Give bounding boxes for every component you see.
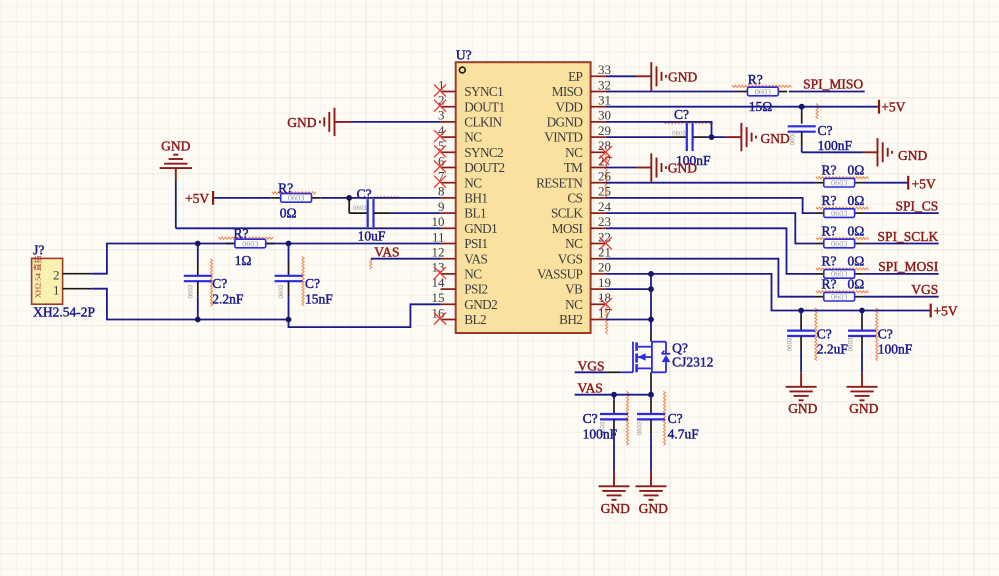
svg-text:NC: NC (464, 267, 482, 282)
svg-text:CLKIN: CLKIN (464, 115, 502, 130)
svg-text:R?: R? (822, 277, 837, 292)
svg-text:VGS: VGS (578, 358, 605, 373)
svg-text:SPI_MISO: SPI_MISO (803, 76, 863, 91)
svg-text:0Ω: 0Ω (848, 254, 865, 269)
svg-text:26: 26 (598, 169, 612, 184)
svg-text:9: 9 (438, 199, 445, 214)
svg-text:VB: VB (565, 282, 583, 297)
svg-text:15: 15 (432, 290, 445, 305)
svg-text:GND: GND (898, 148, 927, 163)
svg-text:DOUT2: DOUT2 (464, 160, 504, 175)
svg-text:XH2.54-2P: XH2.54-2P (33, 304, 95, 319)
svg-text:SPI_SCLK: SPI_SCLK (878, 229, 939, 244)
svg-text:C?: C? (357, 187, 372, 202)
svg-text:GND: GND (287, 115, 316, 130)
svg-text:SCLK: SCLK (551, 206, 583, 221)
svg-text:NC: NC (565, 145, 583, 160)
svg-text:2: 2 (53, 267, 60, 282)
svg-text:1Ω: 1Ω (235, 253, 252, 268)
svg-text:R?: R? (234, 226, 249, 241)
svg-text:GND: GND (761, 131, 790, 146)
svg-text:R?: R? (822, 193, 837, 208)
svg-text:PSI1: PSI1 (464, 236, 487, 251)
svg-text:C?: C? (818, 123, 833, 138)
svg-text:32: 32 (598, 77, 611, 92)
svg-text:0603: 0603 (831, 179, 847, 188)
svg-text:VAS: VAS (578, 380, 603, 395)
svg-text:2.2nF: 2.2nF (212, 291, 244, 306)
svg-text:0603: 0603 (831, 293, 847, 302)
svg-text:SPI_CS: SPI_CS (896, 198, 939, 213)
svg-text:31: 31 (598, 93, 611, 108)
svg-text:R?: R? (822, 254, 837, 269)
svg-text:VAS: VAS (464, 251, 487, 266)
svg-text:0603: 0603 (636, 421, 643, 435)
svg-text:GND: GND (788, 401, 817, 416)
svg-text:GND: GND (668, 160, 697, 175)
svg-text:0603: 0603 (672, 131, 686, 138)
svg-text:NC: NC (464, 130, 482, 145)
svg-text:0603: 0603 (278, 284, 285, 298)
svg-text:C?: C? (212, 276, 227, 291)
svg-text:C?: C? (668, 411, 683, 426)
svg-text:CS: CS (567, 191, 582, 206)
svg-text:+5V: +5V (881, 99, 905, 114)
svg-text:R?: R? (822, 223, 837, 238)
svg-text:VDD: VDD (556, 99, 583, 114)
svg-text:19: 19 (598, 275, 611, 290)
svg-text:PSI2: PSI2 (464, 282, 487, 297)
svg-text:U?: U? (456, 48, 472, 63)
svg-text:TM: TM (564, 160, 583, 175)
svg-text:NC: NC (464, 175, 482, 190)
svg-text:SYNC2: SYNC2 (464, 145, 503, 160)
svg-text:0Ω: 0Ω (848, 163, 865, 178)
svg-text:BH2: BH2 (559, 312, 582, 327)
svg-text:16: 16 (432, 305, 446, 320)
svg-text:DGND: DGND (547, 115, 583, 130)
svg-text:0603: 0603 (847, 337, 854, 351)
svg-text:+5V: +5V (185, 191, 209, 206)
svg-text:100nF: 100nF (878, 341, 913, 356)
svg-text:NC: NC (565, 236, 583, 251)
svg-text:GND2: GND2 (464, 297, 497, 312)
svg-text:BH1: BH1 (464, 191, 487, 206)
svg-text:C?: C? (878, 326, 893, 341)
svg-text:100nF: 100nF (818, 138, 853, 153)
svg-text:0603: 0603 (790, 131, 797, 145)
svg-text:BL1: BL1 (464, 206, 486, 221)
svg-text:12: 12 (432, 245, 445, 260)
svg-text:SPI_MOSI: SPI_MOSI (878, 259, 939, 274)
svg-text:MOSI: MOSI (552, 221, 583, 236)
svg-text:GND: GND (639, 501, 668, 516)
svg-text:14: 14 (432, 275, 446, 290)
svg-text:R?: R? (822, 163, 837, 178)
svg-text:C?: C? (583, 411, 598, 426)
svg-text:VGS: VGS (911, 282, 938, 297)
svg-text:SYNC1: SYNC1 (464, 84, 503, 99)
svg-text:+5V: +5V (912, 176, 936, 191)
svg-text:BL2: BL2 (464, 312, 486, 327)
svg-text:VGS: VGS (558, 251, 583, 266)
svg-text:24: 24 (598, 199, 612, 214)
svg-text:NC: NC (565, 297, 583, 312)
svg-text:0603: 0603 (831, 239, 847, 248)
svg-text:4.7uF: 4.7uF (668, 426, 700, 441)
svg-text:25: 25 (598, 184, 611, 199)
svg-text:J?: J? (33, 242, 44, 257)
svg-text:0603: 0603 (755, 87, 771, 96)
svg-text:13: 13 (432, 260, 445, 275)
svg-text:10: 10 (432, 214, 445, 229)
svg-text:10uF: 10uF (358, 228, 386, 243)
svg-text:GND1: GND1 (464, 221, 497, 236)
svg-text:0603: 0603 (831, 209, 847, 218)
svg-text:0Ω: 0Ω (848, 223, 865, 238)
svg-text:C?: C? (817, 326, 832, 341)
svg-text:EP: EP (568, 69, 582, 84)
svg-text:C?: C? (305, 276, 320, 291)
svg-text:1: 1 (53, 282, 60, 297)
svg-text:100nF: 100nF (583, 426, 618, 441)
svg-text:+5V: +5V (934, 303, 958, 318)
svg-text:R?: R? (278, 180, 293, 195)
svg-text:15nF: 15nF (305, 291, 333, 306)
svg-text:23: 23 (598, 214, 611, 229)
svg-text:C?: C? (674, 107, 689, 122)
svg-text:GND: GND (601, 501, 630, 516)
svg-text:GND: GND (668, 69, 697, 84)
svg-text:11: 11 (432, 229, 445, 244)
svg-text:2.2uF: 2.2uF (817, 341, 849, 356)
svg-text:VINTD: VINTD (544, 130, 582, 145)
svg-text:XH2.54 直插: XH2.54 直插 (33, 255, 43, 298)
svg-text:29: 29 (598, 123, 611, 138)
svg-text:VASSUP: VASSUP (537, 267, 583, 282)
svg-text:30: 30 (598, 108, 611, 123)
svg-text:0Ω: 0Ω (848, 277, 865, 292)
svg-text:MISO: MISO (552, 84, 583, 99)
svg-text:0603: 0603 (187, 284, 194, 298)
svg-text:RESETN: RESETN (536, 175, 583, 190)
svg-text:DOUT1: DOUT1 (464, 99, 504, 114)
svg-text:VAS: VAS (374, 244, 399, 259)
svg-text:20: 20 (598, 260, 611, 275)
svg-text:GND: GND (849, 401, 878, 416)
svg-text:CJ2312: CJ2312 (672, 354, 713, 369)
svg-text:GND: GND (161, 138, 190, 153)
svg-text:33: 33 (598, 62, 611, 77)
svg-text:0Ω: 0Ω (848, 193, 865, 208)
svg-text:0603: 0603 (353, 205, 367, 212)
svg-text:0Ω: 0Ω (280, 206, 297, 221)
svg-text:R?: R? (748, 72, 763, 87)
svg-text:0603: 0603 (787, 337, 794, 351)
